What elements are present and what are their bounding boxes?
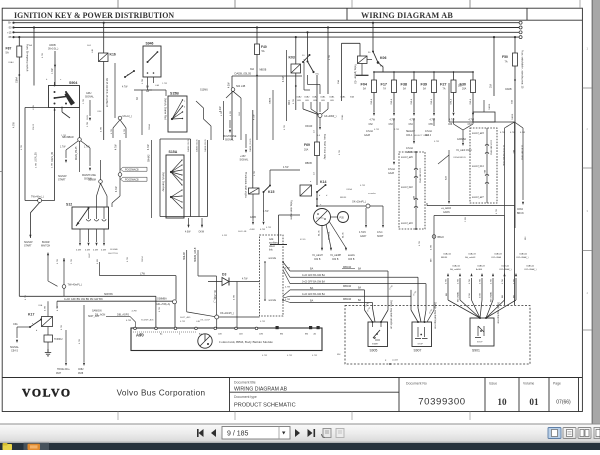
wire chevron — [454, 118, 474, 136]
junction dot F50 — [514, 79, 516, 81]
svg-text:GK+40M(_): GK+40M(_) — [324, 115, 337, 118]
staircase diagonals — [196, 101, 211, 140]
svg-text:SORT: SORT — [377, 236, 384, 238]
svg-text:GARN: GARN — [406, 151, 413, 154]
label 4.7W k03 — [283, 76, 285, 82]
svg-text:BM: BM — [446, 293, 448, 296]
junction ring GK — [318, 114, 322, 118]
svg-text:PRODUCT SCHEMATIC: PRODUCT SCHEMATIC — [234, 403, 296, 409]
S904 bottom pin dots — [54, 107, 63, 111]
svg-text:C62+0MA(_): C62+0MA(_) — [524, 268, 537, 271]
svg-text:S13MU: S13MU — [200, 89, 208, 92]
label OK k03 — [289, 100, 291, 105]
switch box S15A — [166, 155, 184, 218]
dashed connector box B2 — [470, 128, 497, 203]
add aux pin a — [269, 258, 284, 263]
svg-text:Document title: Document title — [234, 381, 256, 385]
arrow F04 — [373, 113, 375, 116]
starter fan dest labels — [312, 254, 355, 257]
wire power bus 3 — [14, 31, 520, 33]
text WIRING DIAGRAM AB cell — [234, 387, 288, 393]
S901 pins — [479, 317, 487, 319]
vertical label switch starter rod — [164, 98, 167, 120]
svg-text:0+CF GFF BN GW BN 0M GW BN: 0+CF GFF BN GW BN 0M GW BN — [64, 298, 103, 301]
dashed enclosure switches — [345, 306, 530, 365]
label K03 — [289, 56, 295, 60]
svg-text:scomf_a26: scomf_a26 — [401, 156, 413, 159]
svg-text:C6N4: C6N4 — [517, 209, 524, 211]
junction ring 100 — [99, 180, 103, 184]
wire starter out drop 2 — [382, 206, 384, 228]
svg-text:GA28: GA28 — [388, 172, 395, 175]
wire feed to chevron — [449, 83, 515, 122]
svg-text:4.7W: 4.7W — [283, 76, 285, 82]
A90 top pin squares — [276, 326, 320, 329]
taskbar background — [0, 443, 600, 450]
fold mark right 1 — [582, 87, 592, 89]
wire ring100 fan — [97, 183, 108, 207]
B2 rotated label — [483, 140, 493, 173]
gray window margin right — [593, 0, 600, 424]
junction dot bus 2 left — [12, 26, 14, 28]
label 47w dib — [126, 311, 138, 323]
svg-text:21.45 BM GRA: 21.45 BM GRA — [521, 145, 524, 160]
B1 pin label 2 — [401, 186, 413, 189]
svg-text:BM: BM — [512, 150, 514, 153]
relay coil K17 — [42, 317, 53, 327]
S12 arm — [76, 207, 90, 226]
junction dot F87 mid — [18, 74, 20, 76]
svg-text:TW+40mP(_): TW+40mP(_) — [68, 284, 82, 287]
svg-text:OK4: OK4 — [289, 100, 291, 105]
svg-text:C6A3-A: C6A3-A — [519, 253, 527, 256]
button two-up view — [578, 428, 591, 439]
label dib dil — [95, 314, 129, 317]
svg-text:MAITCH: MAITCH — [41, 245, 50, 248]
svg-text:C6A1: C6A1 — [329, 96, 335, 99]
label starter — [316, 218, 324, 220]
label 4.7W f40 — [254, 114, 256, 120]
wire switch bus 1 — [290, 270, 388, 272]
rotated label dign05 — [76, 146, 78, 160]
svg-text:0638: 0638 — [78, 373, 84, 375]
arrow sb left — [58, 160, 67, 182]
wire fuse F04 stub — [373, 71, 375, 80]
svg-text:05+0.5(_): 05+0.5(_) — [48, 48, 59, 51]
label 47w fan 7 — [514, 279, 516, 284]
wire K16 down — [103, 62, 105, 141]
svg-text:DIL_AGN: DIL_AGN — [95, 314, 106, 317]
S15A fan pivot 2 — [170, 196, 172, 198]
svg-text:SMUM_GPLB: SMUM_GPLB — [195, 247, 197, 262]
fuse F50 — [513, 53, 518, 66]
svg-text:BRUN: BRUN — [340, 197, 347, 199]
wire DADB left drop — [231, 76, 233, 140]
svg-text:BM: BM — [280, 334, 283, 336]
svg-text:START: START — [372, 343, 379, 346]
svg-text:D3: D3 — [222, 273, 226, 277]
svg-text:SHUTTLE: SHUTTLE — [108, 253, 119, 255]
svg-text:MBOB: MBOB — [260, 70, 267, 72]
svg-text:F04: F04 — [361, 83, 368, 87]
svg-text:DADB 05L05: DADB 05L05 — [187, 138, 190, 152]
wire drop s907 b — [418, 277, 421, 322]
svg-text:C62+0MA: C62+0MA — [491, 256, 501, 259]
node ring bus 4 right — [519, 36, 522, 39]
svg-text:Relay, Ignition +15: Relay, Ignition +15 — [354, 64, 357, 84]
label samign — [88, 310, 102, 319]
label S904 — [69, 81, 77, 85]
svg-text:C62: C62 — [369, 124, 374, 126]
wire C1 up — [63, 258, 65, 285]
svg-text:SD8 BN: SD8 BN — [104, 293, 113, 296]
vertical label relay start engine — [290, 200, 293, 220]
page right edge shadow line — [591, 0, 593, 424]
svg-text:C66: C66 — [448, 124, 453, 126]
svg-text:C6A2: C6A2 — [296, 96, 302, 99]
svg-text:S04 L4B: S04 L4B — [238, 231, 247, 233]
wire S901 fan 3 — [472, 278, 481, 318]
label 47w bblo — [431, 244, 433, 262]
svg-text:OK04F: OK04F — [305, 126, 313, 128]
button single page view — [548, 428, 561, 439]
svg-text:GARN: GARN — [443, 211, 450, 214]
wire K03 down — [295, 73, 297, 110]
fold mark right 3 — [582, 250, 592, 252]
wire GRU drop — [89, 100, 91, 116]
label 30 87 — [368, 52, 384, 68]
label row 3 — [302, 281, 325, 284]
label BA 1 — [310, 268, 314, 271]
arrow S901 fan 3 — [470, 273, 472, 276]
labels below drops — [56, 369, 84, 375]
svg-text:4.7W: 4.7W — [430, 120, 436, 122]
label F27 dest — [449, 120, 455, 122]
svg-text:DIL+7W(+_): DIL+7W(+_) — [213, 290, 215, 303]
svg-text:4.7W: 4.7W — [148, 144, 150, 150]
arrow plus15 — [245, 134, 247, 153]
label F17 — [381, 83, 388, 91]
svg-text:A-0B4: A-0B4 — [476, 268, 483, 271]
label S946 — [146, 42, 154, 46]
vertical label s901 — [497, 302, 500, 324]
wire S946 link — [148, 90, 167, 96]
arrow S901 fan 2 — [459, 273, 461, 276]
A90 symbol circle — [198, 334, 212, 348]
wire col 223 — [220, 101, 224, 140]
arrow k17 left — [16, 340, 18, 343]
arrow S901 fan 1 — [447, 273, 449, 276]
svg-text:5A: 5A — [262, 50, 265, 53]
svg-text:BM: BM — [305, 334, 308, 336]
svg-text:G0L+7W(+A): G0L+7W(+A) — [156, 303, 170, 306]
svg-text:WIRING DIAGRAM AB: WIRING DIAGRAM AB — [234, 387, 288, 393]
wire H1 drop — [155, 296, 157, 328]
svg-text:A7L4A: A7L4A — [406, 147, 413, 150]
bus 4 label — [8, 35, 12, 39]
B1 connector symbols — [414, 168, 418, 208]
wire F50 down — [514, 66, 516, 228]
S907 pins — [417, 321, 426, 323]
svg-text:OADB_05L05: OADB_05L05 — [249, 138, 252, 152]
svg-text:20A: 20A — [462, 88, 467, 91]
wire col 273 — [269, 90, 274, 140]
starter fan dest labels2 — [314, 259, 355, 261]
junction ring 120 — [118, 173, 122, 177]
svg-text:GARY: GARY — [360, 235, 367, 238]
svg-text:BM: BM — [483, 170, 485, 173]
svg-text:C62 B: C62 B — [314, 259, 321, 261]
fold mark top 4 — [469, 0, 471, 8]
svg-text:BA: BA — [358, 268, 362, 271]
svg-text:BA: BA — [358, 299, 362, 302]
svg-text:OKL4: OKL4 — [411, 98, 413, 104]
wire F27 down — [453, 93, 455, 113]
B1 pin label 1 — [401, 156, 413, 159]
svg-text:scomba: scomba — [368, 193, 376, 195]
K06 coil link — [367, 59, 372, 61]
label K16 — [110, 53, 116, 57]
svg-text:Document type: Document type — [234, 395, 257, 399]
svg-text:Switch, Start+key: Switch, Start+key — [162, 172, 165, 192]
A90 internal dashed divider — [133, 331, 196, 333]
svg-text:scomf_b14: scomf_b14 — [472, 165, 484, 168]
svg-text:K16: K16 — [110, 53, 116, 57]
label chip MBGW 6 — [343, 298, 352, 301]
relay coil K16 — [99, 53, 109, 62]
label 1.7W b — [52, 162, 54, 168]
svg-text:BM: BM — [412, 196, 414, 199]
margin zone mark a — [587, 47, 589, 51]
button next view — [336, 429, 344, 438]
svg-text:IGNITION KEY & POWER DISTRIBUT: IGNITION KEY & POWER DISTRIBUTION — [14, 11, 174, 20]
wire fuse feed bus — [374, 71, 473, 73]
label chevron — [457, 138, 467, 141]
svg-text:TW+40m(_): TW+40m(_) — [31, 196, 44, 199]
fold mark top 1 — [117, 0, 119, 8]
wire starter link — [331, 216, 338, 218]
S904 pin stub top — [54, 82, 56, 86]
wire K17 gnd — [47, 342, 49, 352]
page number input box — [222, 427, 290, 440]
arrow S901 fan 4 — [481, 273, 483, 276]
wire starter out drop 1 — [365, 208, 367, 228]
node ring bus 3 right — [519, 31, 522, 34]
svg-text:DIGN_05L05: DIGN_05L05 — [76, 146, 78, 160]
svg-text:Fuse, Start motor relay: Fuse, Start motor relay — [323, 134, 326, 160]
wire SB fan right — [81, 141, 90, 166]
label 47w s905 — [365, 301, 370, 307]
label VADB — [48, 44, 59, 51]
svg-text:OADB: OADB — [488, 103, 491, 110]
fuse F17 — [392, 80, 397, 93]
wire below F38 cont — [406, 118, 415, 154]
label F17 wire — [391, 98, 393, 104]
label S13MU — [200, 89, 208, 92]
button next page — [295, 429, 300, 437]
junction dot F40a — [256, 75, 258, 77]
label row 2 — [302, 274, 325, 277]
svg-text:B+: B+ — [8, 21, 12, 25]
flag label b — [121, 177, 148, 181]
input dropdown divider — [278, 427, 280, 440]
svg-text:2.5W: 2.5W — [469, 293, 471, 298]
title block top line — [2, 377, 582, 379]
svg-text:7A: 7A — [443, 88, 446, 91]
wire F69 top — [316, 75, 318, 142]
svg-text:9 / 185: 9 / 185 — [227, 431, 249, 438]
starter fan arrows — [321, 248, 347, 251]
svg-text:Page: Page — [553, 382, 561, 386]
wire 494 branch — [493, 36, 495, 96]
A90 description — [219, 340, 273, 345]
svg-text:F38: F38 — [401, 83, 408, 87]
wire K03 contact drop — [306, 31, 308, 61]
label GRU SIGNAL — [85, 92, 94, 99]
wire drop s907 a — [411, 290, 418, 322]
junction dot S904 feed — [33, 26, 35, 28]
wire K06 out — [378, 63, 383, 73]
svg-text:A7L4: A7L4 — [377, 231, 383, 234]
S15 below arrows — [187, 218, 203, 228]
wire S15 top link — [160, 139, 191, 140]
svg-text:SIGNAL: SIGNAL — [110, 248, 119, 251]
button two-up continuous view — [594, 428, 600, 439]
wire left of S15A — [151, 140, 153, 218]
wire k03 right branch — [304, 62, 310, 90]
svg-text:70399300: 70399300 — [418, 397, 466, 408]
svg-text:4.7W: 4.7W — [283, 167, 289, 169]
svg-text:BM: BM — [502, 295, 504, 298]
B2 pin label 1 — [472, 132, 484, 135]
B1 top pin dot — [415, 151, 417, 230]
add aux text — [269, 238, 279, 252]
title block mid divider — [230, 391, 400, 393]
junction ring H2 — [173, 300, 177, 304]
svg-text:1.7W: 1.7W — [52, 68, 54, 74]
wire S15 col 3 — [207, 140, 209, 217]
svg-text:OADB 05L05: OADB 05L05 — [204, 138, 207, 152]
svg-text:F39: F39 — [421, 83, 428, 87]
svg-text:MBGW: MBGW — [343, 298, 352, 301]
svg-text:S12: S12 — [66, 203, 72, 207]
svg-text:4.7W: 4.7W — [480, 279, 482, 284]
toolbar background — [0, 424, 600, 443]
label 1.7W sb1 — [60, 147, 90, 149]
svg-text:SIGNAL: SIGNAL — [85, 96, 94, 99]
label F39 wire — [431, 98, 433, 104]
arrow sb right — [89, 168, 91, 171]
svg-text:2.5W: 2.5W — [480, 293, 482, 298]
label F04 dest2 — [369, 124, 374, 126]
wire S901 fan 6 — [486, 278, 505, 318]
svg-text:S907: S907 — [414, 349, 422, 353]
svg-text:C62+0MA(_): C62+0MA(_) — [516, 256, 529, 259]
label F69 — [304, 143, 310, 152]
svg-text:A7L4A: A7L4A — [366, 130, 373, 133]
title IGNITION KEY & POWER DISTRIBUTION — [14, 11, 174, 20]
svg-text:S901: S901 — [472, 349, 480, 353]
K16 contact — [124, 70, 135, 78]
svg-text:30A: 30A — [490, 83, 493, 88]
wire K03 top — [295, 36, 297, 64]
label row C6A2 — [296, 96, 354, 99]
svg-text:4.7W: 4.7W — [502, 279, 504, 284]
wire drop s905 c — [381, 271, 388, 322]
label chip MBGW 1 — [342, 266, 355, 269]
dashed box pin stub — [385, 360, 398, 365]
wire H1 label — [104, 293, 113, 296]
label Document title — [234, 381, 256, 385]
label F04 — [361, 83, 368, 91]
arrow F27 — [452, 113, 454, 116]
svg-text:C6A1: C6A1 — [341, 114, 344, 120]
svg-text:OK04: OK04 — [142, 256, 144, 262]
svg-text:SC4MF_A05: SC4MF_A05 — [141, 319, 154, 322]
wire starter gnd drop — [270, 215, 300, 245]
rotated labels right of B2 — [502, 145, 524, 166]
svg-text:5A_cabRH: 5A_cabRH — [450, 268, 461, 271]
fold mark top 5 — [579, 0, 581, 8]
svg-text:0637: 0637 — [56, 373, 62, 375]
svg-text:L4B: L4B — [196, 321, 200, 323]
arrow F17 — [393, 113, 395, 116]
wire col 449 — [438, 150, 451, 214]
arrow F30 — [472, 113, 474, 116]
arrow F39 — [433, 113, 435, 116]
label ok04f — [305, 126, 316, 133]
wire K03b out — [308, 75, 321, 94]
B2 pin label 3 — [472, 196, 484, 199]
wire drop s907 c — [424, 284, 426, 322]
wire K15 feed — [270, 167, 300, 185]
svg-text:4.7W: 4.7W — [449, 120, 455, 122]
wire F40 top — [256, 26, 258, 44]
K14 contact — [310, 181, 327, 197]
svg-text:S904: S904 — [69, 81, 77, 85]
svg-text:4.7W: 4.7W — [263, 211, 269, 213]
svg-text:SELECT C6A4: SELECT C6A4 — [414, 134, 429, 137]
wire K06 coil feed — [342, 43, 361, 101]
vertical label thermostat — [244, 172, 247, 199]
vertical label fuse switchable — [521, 50, 524, 89]
svg-text:OKL4: OKL4 — [391, 98, 393, 104]
svg-text:F87: F87 — [6, 47, 12, 51]
S904 pin dots — [54, 91, 68, 105]
S15B fan pivot — [171, 118, 173, 120]
button last page — [308, 429, 316, 437]
vertical label fuse start motor — [323, 134, 326, 160]
svg-text:4.0W: 4.0W — [185, 232, 191, 234]
wire L2 — [434, 216, 505, 306]
svg-text:STOP: STOP — [418, 344, 424, 346]
svg-text:Fuse, Emergency switch: Fuse, Emergency switch — [26, 44, 29, 72]
small box above B2 — [473, 112, 495, 122]
starter fan wires — [322, 221, 346, 248]
vertical label relay ignition — [354, 64, 357, 84]
label H2 text — [64, 298, 103, 301]
junction dot bus 3 left — [12, 31, 14, 33]
svg-text:BM: BM — [431, 259, 433, 262]
svg-text:scomfa: scomfa — [269, 258, 277, 260]
wire smallbox feed — [483, 100, 485, 112]
label F30 dest — [469, 120, 475, 122]
wire D3 line — [208, 281, 260, 283]
wire into SB ring — [79, 108, 81, 138]
wire drop s905 a — [365, 290, 373, 322]
svg-text:10: 10 — [497, 397, 507, 407]
svg-text:7A: 7A — [383, 88, 386, 91]
